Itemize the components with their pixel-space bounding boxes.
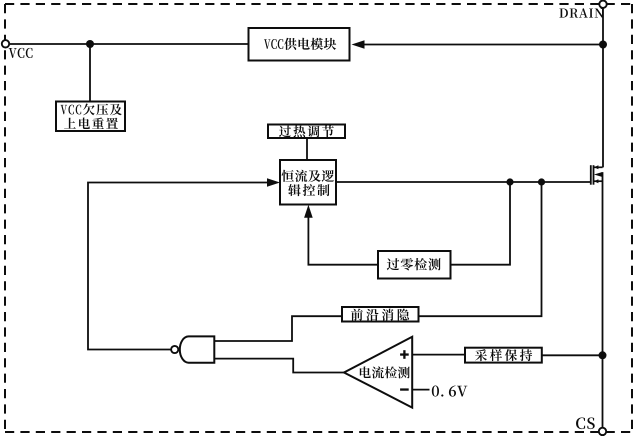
wire zero-cross left branch to logic control (308, 216, 378, 265)
wire VCC rail (VCC terminal to VCC supply block) (6, 43, 249, 45)
block U8 sample-and-hold box (465, 348, 542, 363)
arrowhead into logic control left edge (267, 178, 280, 187)
transistor Q1 source stub (594, 180, 603, 182)
comparator minus input mark (400, 388, 409, 390)
label CS (576, 417, 595, 429)
wire comparator plus input to sample-hold (412, 354, 465, 356)
wire DRAIN vertical (602, 8, 604, 168)
block U4 constant-current and logic control box (280, 160, 336, 205)
wire gate drive line (336, 181, 590, 183)
CS terminal pin (599, 428, 606, 435)
text VCC supply module (264, 38, 336, 50)
IC boundary dashed border bottom edge (5, 431, 632, 433)
text VCC UVLO line2 (64, 118, 118, 129)
wire NAND input B from comparator output (214, 359, 344, 373)
junction gate line / LEB branch (538, 178, 545, 185)
IC boundary dashed border left edge (4, 4, 6, 432)
text zero-crossing detection (387, 258, 441, 270)
block U1 VCC supply module box (249, 28, 350, 61)
block U6 leading-edge blanking box (342, 307, 419, 322)
text logic control line1 (282, 170, 335, 182)
wire sample-hold to CS line (542, 354, 603, 356)
arrowhead into VCC supply block right edge (352, 40, 365, 49)
transistor Q1 drain stub arrowhead (594, 165, 598, 169)
wire zero-cross right branch up to gate line (451, 182, 511, 265)
text leading-edge blanking (351, 309, 409, 321)
wire UVLO branch down (89, 44, 91, 102)
text VCC UVLO line1 (61, 103, 122, 115)
block U2 VCC UVLO and POR box (56, 102, 125, 132)
label VCC (9, 48, 33, 58)
arrowhead into logic control bottom edge (304, 205, 313, 218)
DRAIN terminal pin (599, 0, 606, 7)
transistor Q1 channel bar (593, 165, 595, 185)
text current detection (360, 366, 410, 378)
junction CS line / sample-hold (599, 351, 607, 359)
IC boundary dashed border right edge (631, 4, 633, 432)
IC boundary dashed border top edge (5, 3, 632, 5)
junction VCC rail / UVLO branch (86, 40, 94, 48)
label 0.6V reference (432, 386, 468, 397)
transistor Q1 source stub arrowhead (594, 179, 598, 183)
label DRAIN (559, 8, 603, 17)
block U5 zero-crossing detection box (378, 251, 451, 279)
VCC terminal pin (2, 40, 9, 47)
transistor Q1 drain stub (594, 166, 603, 168)
junction DRAIN line / supply feed (599, 41, 607, 49)
block U3 thermal regulation box (268, 125, 345, 139)
gate G1 NAND (mirrored) body (180, 336, 215, 362)
wire thermal regulation to logic control (306, 138, 308, 160)
wire LEB left branch to NAND input A (214, 316, 342, 341)
gate G1 NAND output bubble (171, 346, 178, 353)
text logic control line2 (288, 184, 329, 196)
text sample and hold (475, 349, 532, 361)
junction gate line / zero-cross branch (506, 178, 513, 185)
comparator plus input mark (400, 350, 409, 359)
op-amp U7 current-detect comparator triangle (344, 337, 412, 408)
transistor Q1 body arrow (594, 172, 602, 177)
wire DRAIN feed to VCC supply block (362, 44, 603, 46)
wire LEB right branch up to gate line (419, 182, 542, 316)
transistor Q1 gate bar (590, 165, 592, 185)
text thermal regulation (279, 125, 334, 137)
wire MOSFET source down to CS terminal (602, 172, 604, 428)
wire comparator minus input to 0.6V reference (412, 389, 429, 391)
wire NAND output to logic control input (88, 183, 268, 350)
